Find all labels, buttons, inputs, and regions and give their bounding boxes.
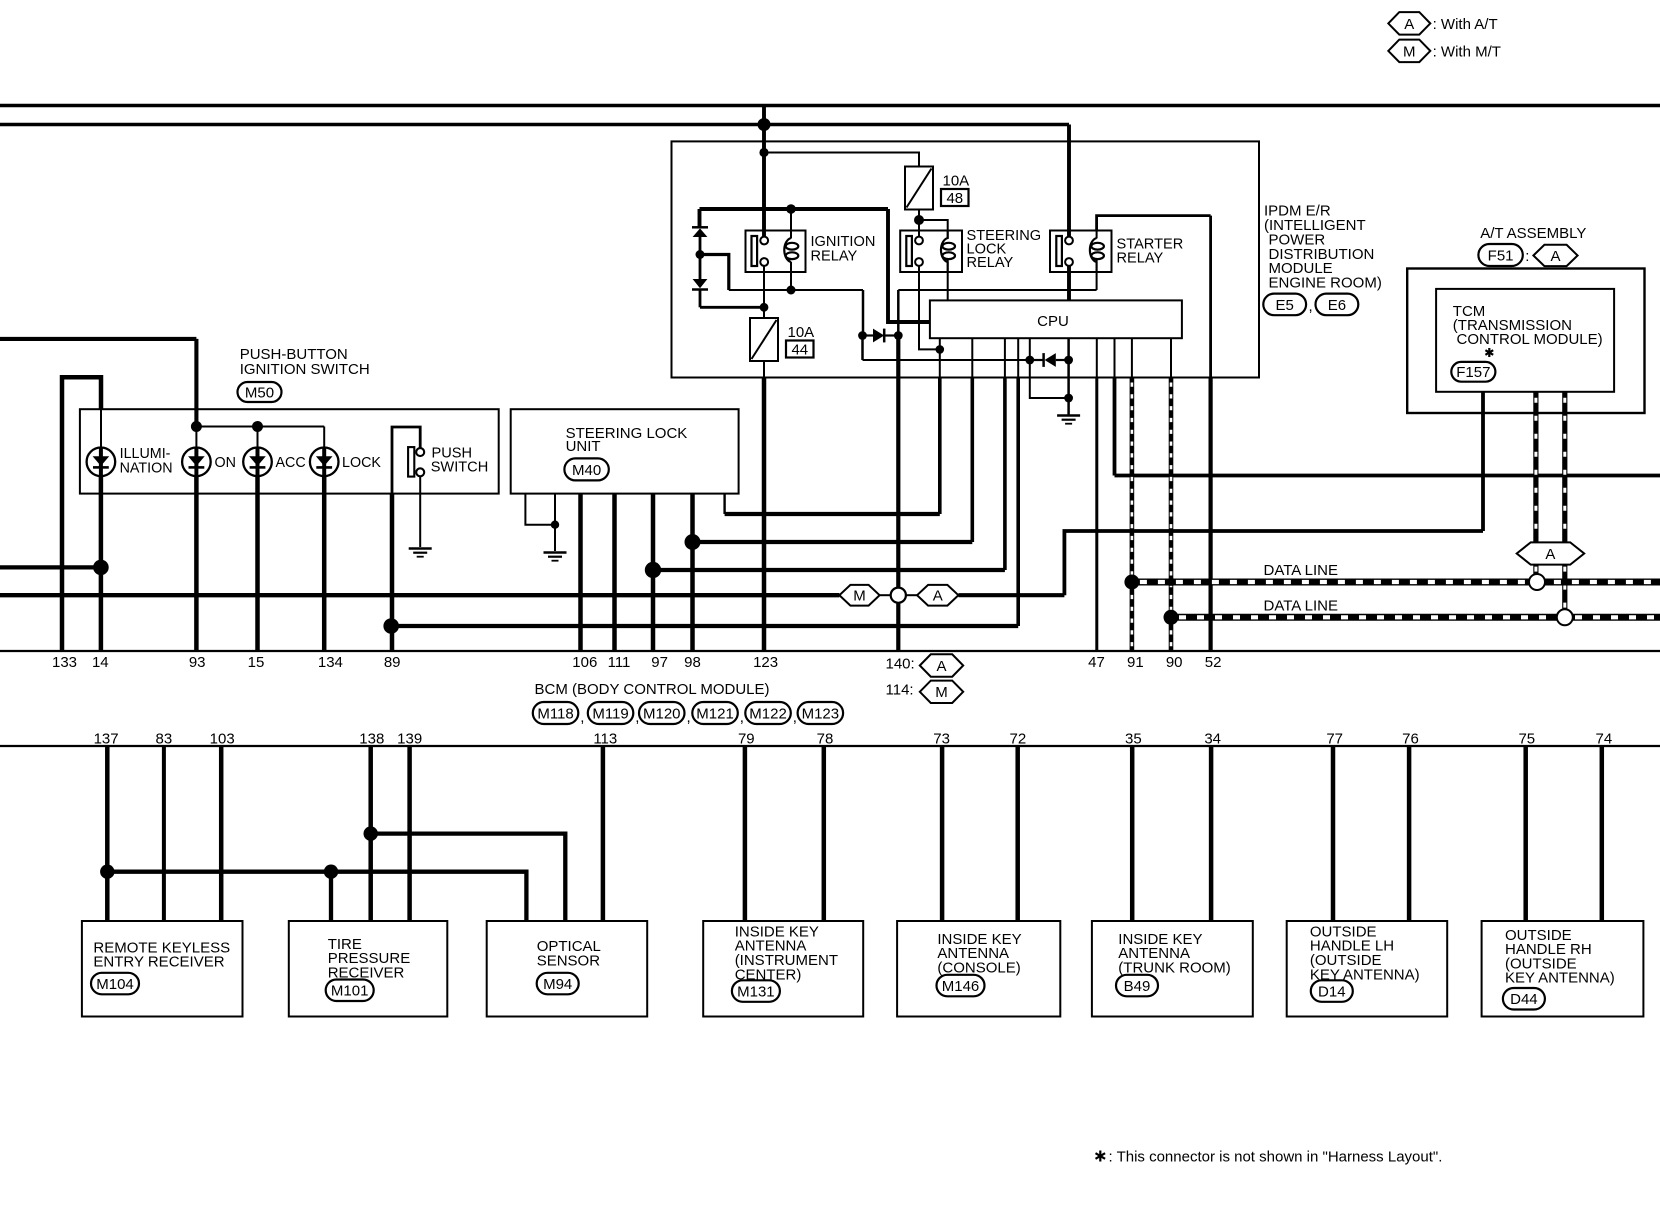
wire CPU pin 3 (to pin 97 line) — [1004, 338, 1006, 377]
svg-text:RELAY: RELAY — [811, 248, 858, 264]
wire BCM 76 to antenna — [1407, 746, 1412, 921]
connector M121 — [692, 702, 738, 724]
relay: STEERING LOCK RELAY — [900, 231, 962, 273]
junction steering contact to steering unit supply — [936, 345, 945, 354]
junction CAN-L / data line 2 — [1164, 610, 1179, 625]
wire ACC LED to pin 15 — [255, 476, 260, 651]
junction pin14/illumination return — [93, 560, 109, 576]
connector B49 — [1116, 975, 1158, 997]
wire branch to fuse 48 — [764, 153, 919, 167]
connector M118 — [533, 702, 579, 724]
module TIRE PRESSURE RECEIVER — [289, 921, 448, 1017]
STEERING LOCK UNIT box — [511, 409, 739, 493]
svg-text:: With M/T: : With M/T — [1433, 43, 1501, 60]
junction pin 98 / CPU pin2 — [685, 534, 701, 550]
svg-text:M101: M101 — [331, 983, 369, 1000]
wire illumination return to left — [0, 565, 101, 569]
wire starter coil feed down to pin 52 — [1209, 216, 1212, 378]
hexagon M inline — [839, 585, 879, 606]
svg-text:IGNITION SWITCH: IGNITION SWITCH — [240, 361, 370, 378]
wire CPU pin 4 (to pin 89 line) — [1017, 338, 1019, 377]
connector E5 — [1263, 294, 1306, 316]
wire D3 anode down to A/M select node — [861, 336, 864, 361]
svg-text:KEY ANTENNA): KEY ANTENNA) — [1505, 970, 1615, 987]
wire BCM 73 to antenna — [940, 746, 945, 921]
CPU box — [930, 300, 1182, 338]
svg-text:A: A — [1550, 248, 1560, 265]
svg-text:75: 75 — [1518, 730, 1535, 747]
wire steering unit pin to BCM 106 — [578, 494, 583, 651]
wire BCM 77 to antenna — [1331, 746, 1336, 921]
svg-text:137: 137 — [94, 730, 119, 747]
wire BCM 75 to antenna — [1523, 746, 1528, 921]
svg-text:111: 111 — [608, 654, 631, 671]
module OPTICAL SENSOR — [487, 921, 648, 1017]
module REMOTE KEYLESS ENTRY RECEIVER — [82, 921, 243, 1017]
svg-text:ENGINE ROOM): ENGINE ROOM) — [1269, 275, 1382, 292]
wire TCM link across to CPU — [1115, 474, 1660, 478]
connector M40 — [564, 458, 608, 480]
wire A/M select run (left) — [0, 593, 839, 597]
svg-text:BCM (BODY CONTROL MODULE): BCM (BODY CONTROL MODULE) — [535, 681, 770, 698]
hexagon A inline — [917, 585, 958, 606]
svg-text:72: 72 — [1010, 730, 1027, 747]
joint circle TCM CAN-H on data line 1 — [1529, 574, 1545, 590]
wire top supply bus 1 — [0, 104, 1660, 108]
svg-text:M94: M94 — [543, 976, 572, 993]
wire supply bus to push-button switch — [0, 337, 196, 341]
svg-text:138: 138 — [359, 730, 384, 747]
wire D4 anode to ground node — [1030, 360, 1069, 398]
fuse 48 10A — [905, 167, 969, 210]
svg-text:B49: B49 — [1124, 978, 1151, 995]
junction 138 / optical branch — [364, 826, 378, 840]
svg-text:A: A — [933, 588, 943, 605]
wire ignition feed from bus1 down into IPDM — [762, 106, 766, 237]
wire supply run from CPU/relay node — [725, 512, 940, 516]
svg-text:,: , — [1309, 298, 1313, 315]
IPDM E/R enclosure — [672, 141, 1260, 377]
svg-text:97: 97 — [651, 654, 668, 671]
svg-text:,: , — [793, 709, 797, 726]
svg-text:CONTROL MODULE): CONTROL MODULE) — [1457, 331, 1603, 348]
connector M123 — [798, 702, 844, 724]
svg-text:M131: M131 — [737, 983, 775, 1000]
svg-text:M: M — [1403, 43, 1416, 60]
LED LOCK — [310, 448, 339, 477]
svg-text:93: 93 — [189, 654, 206, 671]
wire steering unit pin to BCM 98 — [690, 494, 695, 651]
connector M94 — [537, 973, 579, 995]
svg-text:140:: 140: — [886, 655, 915, 672]
wire BCM 137 to remote keyless receiver — [105, 746, 110, 921]
wire LOCK LED to pin 134 — [322, 476, 327, 651]
wire A/M node to diode D4 — [863, 359, 1030, 361]
wire relay coil return line (right) — [898, 289, 1096, 291]
connector D14 — [1311, 980, 1353, 1002]
wire steering unit supply drop — [939, 349, 941, 377]
legend hexagon M (With M/T) — [1388, 40, 1430, 63]
relay: STARTER RELAY — [1050, 231, 1112, 273]
svg-text:M121: M121 — [696, 705, 734, 722]
LED ACC — [243, 448, 272, 477]
svg-text:DATA LINE: DATA LINE — [1264, 598, 1338, 615]
svg-text:91: 91 — [1127, 654, 1144, 671]
svg-text:DATA LINE: DATA LINE — [1264, 562, 1338, 579]
wire fuse44 to BCM pin 123 — [762, 378, 767, 652]
svg-text:RELAY: RELAY — [967, 255, 1014, 271]
wire BCM 35 to antenna — [1130, 746, 1135, 921]
ground CPU ground — [1057, 416, 1080, 424]
LED ON — [182, 448, 211, 477]
svg-text:98: 98 — [684, 654, 701, 671]
junction shared line / tire branch — [324, 865, 338, 879]
wire diode D2 to ignition contact output — [700, 306, 764, 309]
svg-text:A: A — [1404, 16, 1414, 33]
relay: IGNITION RELAY — [746, 231, 806, 273]
connector M131 — [732, 980, 780, 1002]
connector E6 — [1316, 294, 1359, 316]
svg-text:139: 139 — [397, 730, 422, 747]
wire top supply bus 2 — [0, 123, 1069, 127]
wire steering unit ground pin 2 — [554, 494, 556, 551]
wire BCM 83 to remote keyless receiver — [162, 746, 166, 921]
wire internal bus down segment at left — [698, 209, 702, 227]
ground steering unit ground — [544, 553, 567, 561]
svg-text:F157: F157 — [1456, 364, 1490, 381]
connector F51 — [1478, 244, 1522, 266]
svg-text:79: 79 — [738, 730, 755, 747]
wire CPU pin to TCM link — [1114, 338, 1116, 377]
junction ground node — [1064, 394, 1073, 403]
wire starter contact output to CPU — [1067, 266, 1071, 301]
wire relay drive line (left) — [729, 289, 863, 291]
junction D4 cathode on ground line — [1064, 356, 1073, 365]
wire coil top stub — [790, 209, 792, 231]
svg-text:133: 133 — [52, 654, 77, 671]
svg-text:LOCK: LOCK — [342, 455, 381, 471]
wire starter coil low side — [1096, 260, 1098, 290]
wire BCM 138 to tire pressure receiver — [368, 746, 373, 921]
module INSIDE KEY ANTENNA (TRUNK ROOM) — [1092, 921, 1253, 1017]
wire CAN-H dashed below hexagon — [1533, 565, 1538, 575]
svg-text:: This connector is not shown: : This connector is not shown in "Harnes… — [1109, 1148, 1443, 1165]
wire CPU ground pin — [1067, 338, 1070, 415]
svg-text:44: 44 — [791, 342, 808, 359]
wire BCM 78 to antenna — [822, 746, 827, 921]
connector M122 — [745, 702, 791, 724]
diode D2 (cathode down) — [692, 255, 708, 308]
svg-text:74: 74 — [1596, 730, 1613, 747]
connector D44 — [1503, 988, 1545, 1010]
svg-text:M123: M123 — [802, 705, 840, 722]
connector M50 — [238, 382, 282, 402]
svg-text:M40: M40 — [572, 462, 601, 479]
wire bus2 drop to starter relay contact — [1067, 125, 1071, 237]
svg-text::: : — [1525, 248, 1529, 265]
junction bus2/ignition feed — [758, 118, 771, 131]
wire BCM 72 to antenna — [1015, 746, 1020, 921]
connector M104 — [91, 973, 139, 995]
svg-text:: With A/T: : With A/T — [1433, 16, 1498, 33]
svg-text:134: 134 — [318, 654, 343, 671]
patch CAN-L crossing data line 1 — [1169, 578, 1174, 586]
junction pin 97 / CPU pin3 — [645, 562, 661, 578]
connector M101 — [326, 980, 374, 1002]
svg-text:A: A — [1545, 546, 1555, 563]
wire CAN-L dashed below hexagon — [1562, 565, 1567, 610]
wire ignition relay contact output — [763, 266, 765, 318]
svg-text:52: 52 — [1205, 654, 1222, 671]
svg-text:NATION: NATION — [120, 460, 173, 476]
hexagon A (A/T assembly) — [1533, 245, 1577, 266]
svg-text:48: 48 — [946, 190, 963, 207]
wire TCM power pin down — [1481, 392, 1485, 531]
wire DATA LINE 2 — [1171, 614, 1660, 621]
wire CAN-H CPU pin — [1131, 338, 1133, 377]
wire M hex to junction circle — [880, 594, 892, 596]
wire D3 cathode up to relay coil return line — [897, 290, 900, 336]
wire steering unit pin to BCM 111 — [612, 494, 617, 651]
module INSIDE KEY ANTENNA (CONSOLE) — [897, 921, 1060, 1017]
connector M119 — [588, 702, 634, 724]
wire branch into tire pressure receiver — [329, 872, 333, 921]
svg-text:14: 14 — [92, 654, 109, 671]
wire steering relay contact output — [919, 266, 940, 350]
svg-text:10A: 10A — [788, 324, 815, 341]
svg-text:M118: M118 — [537, 705, 573, 722]
wire pin97 node to CPU pin3 — [653, 568, 1005, 572]
wire branch to steering lock relay coil — [919, 220, 948, 239]
svg-text:E6: E6 — [1328, 297, 1346, 314]
wire CPU pin to steering-unit supply node — [939, 338, 941, 349]
svg-text:76: 76 — [1402, 730, 1419, 747]
svg-text:,: , — [580, 709, 584, 726]
svg-text:UNIT: UNIT — [566, 438, 601, 455]
wire pin89 node to CPU pin4 — [391, 624, 1018, 628]
svg-text:83: 83 — [156, 730, 173, 747]
A/T assembly box — [1407, 269, 1644, 414]
wire CPU pin to BCM pin 47 — [1096, 338, 1098, 377]
connector F157 — [1451, 362, 1495, 382]
wire CPU pin to D4 — [1029, 338, 1031, 360]
svg-text:77: 77 — [1326, 730, 1343, 747]
BCM bottom edge — [0, 745, 1660, 747]
svg-text:M: M — [935, 684, 948, 701]
wire push switch line to pin 89 — [390, 494, 395, 651]
junction pin 89 / CPU line — [383, 618, 399, 634]
wire CAN-L drop (IPDM to pin 90) — [1169, 378, 1174, 652]
wire BCM 103 to remote keyless receiver — [219, 746, 224, 921]
junction contact output / D2 return — [760, 303, 769, 312]
wire BCM 139 to tire pressure receiver — [407, 746, 412, 921]
module OUTSIDE HANDLE LH — [1287, 921, 1448, 1017]
joint circle TCM CAN-L on data line 2 — [1557, 609, 1573, 625]
wire branch into optical sensor — [371, 834, 566, 921]
svg-text:M120: M120 — [643, 705, 681, 722]
wire ignition coil low side — [790, 272, 792, 290]
wire LED feed rail — [196, 426, 324, 428]
wire BCM 74 to antenna — [1600, 746, 1605, 921]
wire CAN-L CPU pin — [1170, 338, 1172, 377]
svg-text:E5: E5 — [1276, 297, 1294, 314]
svg-text:SENSOR: SENSOR — [537, 952, 601, 969]
svg-text:D44: D44 — [1510, 991, 1538, 1008]
svg-text:106: 106 — [572, 654, 597, 671]
PUSH-BUTTON IGNITION SWITCH box — [80, 409, 499, 493]
svg-text:ENTRY RECEIVER: ENTRY RECEIVER — [93, 954, 224, 971]
svg-text:113: 113 — [593, 730, 617, 747]
svg-text:SWITCH: SWITCH — [431, 460, 489, 476]
svg-text:CPU: CPU — [1037, 313, 1069, 330]
wire fuse 44 to IPDM edge — [763, 361, 765, 378]
hexagon A over TCM CAN pair — [1517, 542, 1585, 564]
junction CAN-H / data line 1 — [1124, 575, 1139, 590]
svg-text:89: 89 — [384, 654, 401, 671]
wire internal bus to ignition relay coil and CPU — [700, 207, 889, 211]
wire drop to diode D3 anode — [862, 290, 865, 336]
module OUTSIDE HANDLE RH — [1482, 921, 1644, 1017]
wire TCM CAN-H dashed — [1533, 392, 1538, 543]
LED ILLUMINATION — [87, 448, 116, 477]
connector M120 — [639, 702, 685, 724]
wire ILLUMI LED to pin 14 — [99, 476, 104, 651]
wire steering unit supply pin from relay — [723, 494, 725, 514]
wire fuse 48 to steering lock relay contact — [918, 210, 920, 237]
svg-text:47: 47 — [1088, 654, 1105, 671]
wire A hex to TCM branch — [959, 593, 1065, 597]
wire BCM 79 to antenna — [743, 746, 748, 921]
ground push switch ground — [409, 549, 432, 557]
svg-text:M50: M50 — [245, 384, 274, 401]
wire steering coil low to CPU — [947, 260, 949, 300]
wire push switch to pin 89 — [392, 427, 420, 494]
svg-text:15: 15 — [248, 654, 265, 671]
svg-text:A/T ASSEMBLY: A/T ASSEMBLY — [1480, 225, 1586, 242]
wire BCM 113 to optical sensor — [601, 746, 606, 921]
legend hexagon A (With A/T) — [1388, 12, 1430, 34]
TCM box — [1436, 289, 1614, 392]
wire pin133/illumination bridge — [62, 377, 101, 651]
svg-text:10A: 10A — [943, 173, 970, 190]
svg-text:73: 73 — [933, 730, 950, 747]
svg-text:,: , — [687, 709, 691, 726]
wire CPU pin 2 (to pin 98 line) — [971, 338, 973, 377]
svg-text:123: 123 — [753, 654, 778, 671]
svg-text:M: M — [853, 588, 866, 605]
wire rail drops to LEDs — [195, 427, 197, 448]
svg-text:M104: M104 — [96, 976, 134, 993]
svg-text:ON: ON — [215, 455, 236, 471]
wire CAN-H drop (IPDM to pin 91) — [1130, 378, 1135, 652]
wire steering unit ground pin 1 — [525, 494, 551, 525]
fuse 44 10A — [750, 318, 814, 361]
diode D4 (CPU sense) — [1025, 353, 1068, 367]
svg-text:M119: M119 — [592, 705, 628, 722]
module INSIDE KEY ANTENNA (INSTRUMENT CENTER) — [703, 921, 863, 1017]
junction LED rail at ON — [191, 421, 202, 432]
wire starter coil top feed loop — [1097, 216, 1211, 231]
wire TCM CAN-L dashed — [1562, 392, 1567, 543]
wire pin98 node to CPU pin2 — [693, 540, 973, 544]
svg-text:F51: F51 — [1488, 247, 1514, 264]
wire circle to A hex — [905, 594, 917, 596]
wire D3 cathode down to BCM 140/114 — [896, 336, 900, 589]
svg-text:A: A — [936, 658, 946, 675]
footnote asterisk — [1096, 1151, 1106, 1162]
svg-text:D14: D14 — [1318, 983, 1346, 1000]
wire TCM pin to A-hex wire — [1064, 531, 1483, 595]
connector M146 — [937, 975, 985, 997]
diode D1 (cathode to internal bus) — [692, 227, 708, 254]
svg-text:M122: M122 — [749, 705, 787, 722]
wire internal bus right drop to CPU — [888, 209, 930, 322]
wire diode node to relay coil low line — [700, 255, 729, 291]
junction ignition coil top — [786, 204, 796, 214]
asterisk mark — [1485, 348, 1493, 357]
svg-text:M146: M146 — [942, 978, 980, 995]
junction circle connector — [891, 588, 906, 603]
svg-text:,: , — [740, 709, 744, 726]
svg-text:103: 103 — [210, 730, 235, 747]
wire illumination LED feed inside box — [100, 409, 102, 447]
push switch PUSH SWITCH — [408, 447, 424, 477]
wire BCM 34 to antenna — [1209, 746, 1214, 921]
junction LED rail at ACC — [252, 421, 263, 432]
BCM top edge — [0, 650, 1660, 652]
svg-text:114:: 114: — [886, 682, 914, 699]
svg-text:RELAY: RELAY — [1117, 250, 1164, 266]
junction diode pair anode node — [696, 250, 705, 259]
diode D3 (relay drive isolation) — [858, 329, 903, 343]
svg-text:35: 35 — [1125, 730, 1142, 747]
svg-text:78: 78 — [817, 730, 834, 747]
junction ignition feed / fuse 48 branch — [759, 148, 768, 157]
junction 137 / shared line — [100, 865, 114, 879]
wire steering unit pin to BCM 97 — [651, 494, 656, 651]
svg-text:ACC: ACC — [276, 455, 306, 471]
junction fuse48 out / steering coil branch — [914, 215, 924, 225]
wire ON LED to pin 93 — [194, 476, 199, 651]
wire shared line to tire and optical — [107, 872, 526, 921]
junction coil low / relay drive line — [787, 286, 796, 295]
svg-text:90: 90 — [1166, 654, 1183, 671]
junction steering unit ground — [551, 521, 559, 529]
wire push switch to ground — [419, 476, 421, 547]
svg-text:34: 34 — [1204, 730, 1221, 747]
wire DATA LINE 1 — [1132, 579, 1660, 586]
